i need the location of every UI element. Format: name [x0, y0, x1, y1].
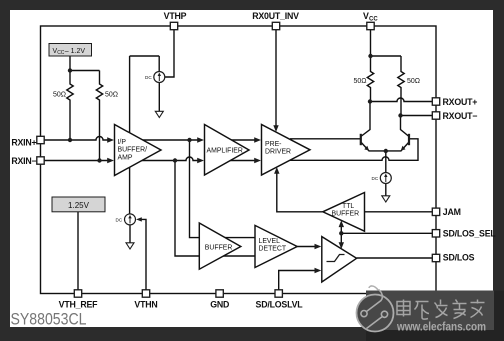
svg-text:DC: DC — [116, 218, 123, 223]
watermark chinese glyphs — [397, 300, 485, 320]
arrowhead RXIN- into I/P buffer — [107, 158, 114, 163]
wire SD/LOS_SEL line — [341, 232, 432, 234]
transistor Q-left base bar — [360, 134, 362, 145]
arrowhead TTL return into pre-driver bottom — [274, 167, 279, 174]
transistor Q-left emitter — [361, 142, 386, 151]
wire tap lower to buffer B — [175, 161, 200, 257]
wire RX0UT_INV drop into pre-driver — [275, 30, 277, 126]
arrowhead level detect into comparator — [315, 244, 322, 249]
wire bias corner to I/P buffer top and DC source top — [130, 56, 160, 214]
svg-text:I/P: I/P — [118, 139, 127, 146]
svg-text:AMP: AMP — [118, 155, 133, 162]
op-amp PRE-DRIVER — [262, 125, 311, 176]
svg-text:VTHN: VTHN — [134, 300, 157, 310]
wire RXOUT+ line with hop over right resistor column — [370, 98, 432, 101]
wire JAM to TTL buffer — [365, 211, 433, 213]
box Vcc-1.2V reference — [49, 44, 92, 57]
pad JAM — [432, 208, 439, 215]
arrowhead RX0UT_INV into pre-driver top — [273, 125, 278, 132]
wire comparator output to SD/LOS — [357, 257, 433, 259]
svg-text:50Ω: 50Ω — [353, 78, 366, 85]
svg-text:TTL: TTL — [342, 203, 354, 210]
ground arrow below DC3 — [382, 196, 390, 202]
wire 1.25V box to VTH_REF pad — [77, 212, 79, 290]
svg-text:LEVEL: LEVEL — [259, 238, 281, 245]
arrowhead upper into amplifier — [197, 137, 204, 142]
svg-text:SY88053CL: SY88053CL — [11, 309, 87, 328]
dc current source DC1 (top left) — [145, 72, 165, 83]
wire I/P buffer to amplifier lower with hop — [139, 157, 198, 161]
node RXOUT- — [398, 113, 402, 117]
node below Vcc-1.2V box — [68, 68, 72, 72]
svg-text:GND: GND — [210, 300, 229, 310]
svg-text:CC: CC — [57, 50, 65, 56]
wire buffer B to level detect upper — [224, 237, 255, 239]
wire common emitter to DC tail source — [385, 151, 387, 173]
dc current source DC3 (tail of output pair) — [372, 173, 392, 184]
watermark logo circle — [357, 286, 394, 332]
pad RXIN- — [37, 157, 44, 164]
svg-text:50Ω: 50Ω — [105, 92, 118, 99]
wire SD/LOS_SEL down arrow to comparator — [340, 233, 342, 243]
resistor R-in-right 50ohm column — [96, 71, 102, 161]
wire right collector — [401, 116, 410, 137]
transistor Q-right emitter — [386, 142, 409, 151]
wire VTHN up to DC2 arrow — [142, 219, 147, 290]
svg-text:AMPLIFIER: AMPLIFIER — [207, 148, 243, 155]
node RXIN- / right input resistor — [97, 158, 101, 162]
svg-text:50Ω: 50Ω — [53, 92, 66, 99]
wire VTHP drop to DC current source — [165, 30, 174, 77]
pad VTHN — [142, 290, 149, 297]
wire pre-driver lower output to right transistor base, hop over emitter line — [290, 139, 418, 161]
arrowhead upper into pre-driver — [254, 137, 261, 142]
wire I/P buffer to amplifier upper — [140, 139, 198, 141]
pad RXOUT+ — [432, 98, 439, 105]
pad VTH_REF — [74, 290, 81, 297]
wire RXIN+ line with hop over right resistor column — [44, 137, 108, 141]
svg-text:RX0UT_INV: RX0UT_INV — [252, 11, 299, 21]
op-amp AMPLIFIER — [205, 125, 250, 176]
dc current source DC2 (below I/P buffer) — [116, 214, 136, 225]
node RXIN+ / left input resistor — [68, 138, 72, 142]
arrowhead SD/LOS_SEL up into TTL buffer — [339, 220, 344, 227]
wire RXIN- line — [44, 160, 108, 162]
wire RXOUT- line — [401, 115, 433, 117]
node SD/LOS_SEL branch — [339, 231, 343, 235]
wire level detect to comparator — [297, 246, 315, 248]
resistor R-out-left 50ohm column — [367, 56, 373, 102]
comparator U-hyst with hysteresis symbol — [322, 237, 357, 282]
svg-text:DETECT: DETECT — [259, 246, 287, 253]
node lower signal tap — [173, 158, 177, 162]
arrowhead RXIN+ into I/P buffer — [107, 137, 114, 142]
wire tap upper to buffer B — [190, 140, 200, 238]
op-amp BUFFER — [199, 223, 241, 269]
watermark badge (dark) — [366, 291, 504, 341]
wire buffer B to level detect lower — [222, 255, 255, 257]
op-amp I/P BUFFER/AMP — [115, 125, 162, 176]
wire pre-driver upper output to left transistor base — [290, 138, 360, 140]
wire SD/LOS_SEL up arrow to TTL buffer — [340, 226, 342, 233]
wire DC tail to arrow — [385, 184, 387, 197]
svg-text:VTH_REF: VTH_REF — [59, 300, 99, 310]
wire SD/LOSLVL up to comparator lower input — [279, 271, 316, 291]
svg-text:JAM: JAM — [443, 207, 461, 217]
op-amp TTL BUFFER (points left) — [323, 193, 365, 232]
svg-text:RXIN+: RXIN+ — [11, 138, 36, 148]
svg-text:RXOUT−: RXOUT− — [443, 111, 478, 121]
pad VTHP — [170, 22, 177, 29]
wire Vcc-1.2V box to resistor rail — [70, 56, 100, 71]
wire Vcc drop and resistor top rail — [371, 30, 402, 56]
pad RX0UT_INV — [272, 22, 279, 29]
svg-text:50Ω: 50Ω — [407, 78, 420, 85]
wire TTL buffer output to pre-driver bottom — [277, 174, 323, 212]
svg-text:SD/LOS: SD/LOS — [443, 252, 475, 262]
frame left bar — [0, 0, 10, 341]
frame top bar — [0, 0, 504, 10]
svg-text:DC: DC — [145, 75, 152, 80]
pad SD/LOS_SEL — [432, 230, 439, 237]
wire DC1 tail arrow — [158, 83, 160, 112]
svg-text:PRE-: PRE- — [265, 141, 281, 148]
wire amplifier to pre-driver lower — [230, 160, 256, 162]
arrowhead SD/LOS_SEL down into comparator — [339, 242, 344, 249]
svg-text:www.elecfans.com: www.elecfans.com — [396, 322, 486, 334]
pad RXOUT- — [432, 112, 439, 119]
schematic border box — [41, 26, 437, 294]
node RXOUT+ — [368, 99, 372, 103]
svg-text:– 1.2V: – 1.2V — [65, 48, 86, 55]
op-amp LEVEL DETECT — [255, 225, 297, 267]
arrowhead SD/LOSLVL into comparator — [315, 268, 322, 273]
resistor R-out-right 50ohm column — [398, 56, 404, 116]
svg-text:RXOUT+: RXOUT+ — [443, 97, 478, 107]
arrowhead VTHN into DC2 — [136, 217, 142, 221]
resistor R-in-left 50ohm column — [67, 71, 73, 141]
ground arrow below DC1 — [155, 111, 163, 117]
transistor Q-right base bar — [408, 134, 410, 145]
svg-text:1.25V: 1.25V — [68, 201, 90, 210]
svg-text:DC: DC — [372, 176, 379, 181]
node upper signal tap — [187, 138, 191, 142]
pad GND — [216, 290, 223, 297]
node Vcc rail — [368, 54, 372, 58]
wire DC2 below I/P buffer tail — [129, 225, 131, 243]
svg-text:RXIN−: RXIN− — [11, 156, 36, 166]
box 1.25V reference — [52, 197, 105, 212]
pads (terminals) — [37, 22, 440, 297]
transistor Q-left emitter arrowhead — [364, 146, 369, 151]
svg-text:SD/LOS_SEL: SD/LOS_SEL — [443, 228, 497, 238]
arrowhead lower into amplifier — [197, 158, 204, 163]
pad RXIN+ — [37, 136, 44, 143]
pad VCC — [367, 22, 374, 29]
svg-text:DRIVER: DRIVER — [265, 149, 291, 156]
frame bottom bar — [0, 327, 504, 341]
wire amplifier to pre-driver upper — [231, 139, 256, 141]
svg-text:SD/LOSLVL: SD/LOSLVL — [256, 300, 304, 310]
pad SD/LOSLVL — [275, 290, 282, 297]
svg-text:VTHP: VTHP — [164, 11, 187, 21]
wire left collector — [361, 102, 370, 137]
svg-text:BUFFER: BUFFER — [205, 245, 233, 252]
transistor Q-right emitter arrowhead — [401, 146, 406, 151]
svg-text:CC: CC — [369, 17, 378, 23]
arrowhead lower into pre-driver — [254, 158, 261, 163]
frame right bar — [493, 0, 504, 341]
pad SD/LOS — [432, 254, 439, 261]
svg-text:BUFFER: BUFFER — [332, 211, 360, 218]
ground arrow below DC2 — [126, 243, 134, 249]
node common emitter — [384, 149, 388, 153]
svg-text:BUFFER/: BUFFER/ — [118, 147, 148, 154]
